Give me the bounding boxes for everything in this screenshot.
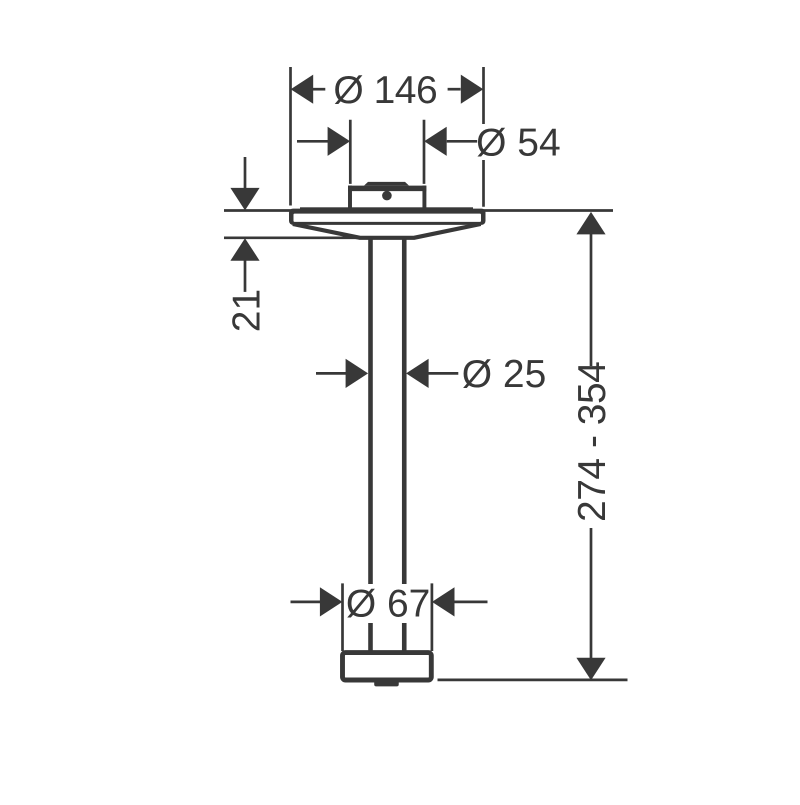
wire dim 21 tails xyxy=(244,157,247,188)
wire bottom reference line xyxy=(438,679,628,682)
wire dim D54 tails xyxy=(297,140,328,143)
pipe right wall xyxy=(402,238,407,652)
wire ext line D67 left xyxy=(341,583,344,651)
svg-text:21: 21 xyxy=(226,289,269,332)
label D146 xyxy=(327,69,445,112)
arrow D25 right xyxy=(406,359,429,388)
arrow D67 left xyxy=(320,587,343,616)
label D25 xyxy=(459,353,549,396)
wire dim D67 tails xyxy=(291,601,321,604)
wire ext line D146 right xyxy=(482,67,485,207)
wire ceiling reference line xyxy=(224,209,613,212)
arrow D25 left xyxy=(346,359,369,388)
bottom nub xyxy=(374,683,399,687)
svg-text:Ø 25: Ø 25 xyxy=(462,353,547,396)
connector block on top of plate xyxy=(348,182,426,209)
arrow D146 left xyxy=(291,75,314,104)
wire dim D146 tails xyxy=(313,88,325,91)
arrow D146 right xyxy=(461,75,484,104)
screw dot on block xyxy=(382,191,392,201)
arrow D67 right xyxy=(432,587,455,616)
arrow 274-354 down xyxy=(576,658,605,681)
label 274-354 xyxy=(571,362,614,522)
svg-text:Ø 146: Ø 146 xyxy=(333,69,437,112)
wire dim D25 tails xyxy=(316,372,346,375)
arrow 274-354 up xyxy=(576,212,605,235)
pipe left wall xyxy=(368,238,373,652)
svg-text:Ø 54: Ø 54 xyxy=(476,122,561,165)
label D67 xyxy=(346,582,431,625)
label 21 xyxy=(226,289,269,332)
svg-text:274 - 354: 274 - 354 xyxy=(571,362,614,522)
wire ext line D67 right xyxy=(431,583,434,651)
arrow 21 down xyxy=(230,188,259,211)
cone skirt under plate xyxy=(293,224,481,238)
bottom connector box xyxy=(343,653,432,680)
label D54 xyxy=(476,122,562,165)
arrow 21 up xyxy=(230,238,259,261)
wire dim 274-354 segments xyxy=(590,234,593,366)
svg-text:Ø 67: Ø 67 xyxy=(346,582,431,625)
wire ext line D54 left xyxy=(349,120,352,184)
arrow D54 right xyxy=(424,127,447,156)
block side walls xyxy=(348,186,352,209)
ceiling plate xyxy=(289,207,486,225)
wire cone-bottom reference line xyxy=(224,236,368,239)
wire ext line D146 left xyxy=(289,67,292,206)
arrow D54 left xyxy=(328,127,351,156)
wire ext line D54 right xyxy=(423,120,426,184)
